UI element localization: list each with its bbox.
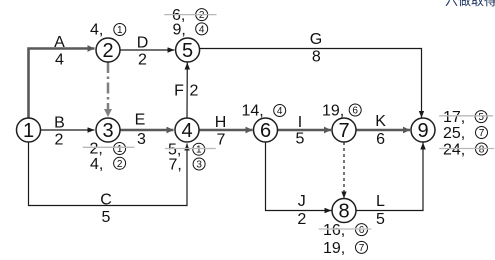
svg-text:6: 6 <box>260 120 271 142</box>
svg-text:L: L <box>376 193 385 210</box>
svg-text:B: B <box>54 115 65 132</box>
svg-text:3: 3 <box>102 120 113 142</box>
svg-text:7,: 7, <box>169 157 182 174</box>
svg-text:8: 8 <box>312 49 321 66</box>
svg-text:25,: 25, <box>443 125 465 142</box>
svg-text:K: K <box>375 113 386 130</box>
svg-text:7: 7 <box>338 120 349 142</box>
svg-text:7: 7 <box>479 128 485 139</box>
svg-text:24,: 24, <box>443 142 465 159</box>
svg-text:2: 2 <box>117 159 123 170</box>
svg-text:8: 8 <box>338 201 349 223</box>
svg-text:1: 1 <box>196 145 202 156</box>
svg-text:5: 5 <box>102 209 111 226</box>
svg-text:7: 7 <box>359 243 365 254</box>
svg-text:2: 2 <box>199 10 205 21</box>
svg-text:8: 8 <box>479 145 485 156</box>
svg-text:3: 3 <box>196 160 202 171</box>
svg-text:19,: 19, <box>323 240 345 257</box>
svg-text:5: 5 <box>478 112 484 123</box>
svg-text:F: F <box>174 83 184 100</box>
svg-text:2: 2 <box>55 132 64 149</box>
svg-text:1: 1 <box>117 25 123 36</box>
svg-text:4: 4 <box>199 24 205 35</box>
svg-text:6: 6 <box>359 225 365 236</box>
svg-text:6: 6 <box>376 131 385 148</box>
svg-text:H: H <box>215 114 227 131</box>
svg-text:17,: 17, <box>443 109 465 126</box>
svg-text:5: 5 <box>296 131 305 148</box>
svg-text:4: 4 <box>181 120 192 142</box>
svg-text:3: 3 <box>137 131 146 148</box>
svg-text:A: A <box>54 34 65 51</box>
svg-text:I: I <box>298 114 302 131</box>
svg-text:14,: 14, <box>242 102 264 119</box>
svg-text:9,: 9, <box>173 22 186 39</box>
svg-text:E: E <box>135 112 146 129</box>
svg-text:J: J <box>298 193 306 210</box>
svg-text:4: 4 <box>55 52 64 69</box>
svg-text:4,: 4, <box>90 156 103 173</box>
svg-text:2: 2 <box>102 40 113 62</box>
svg-text:4,: 4, <box>90 22 103 39</box>
svg-text:9: 9 <box>417 120 428 142</box>
svg-text:5: 5 <box>182 40 193 62</box>
svg-text:G: G <box>310 31 322 48</box>
svg-text:16,: 16, <box>323 222 345 239</box>
svg-text:1: 1 <box>117 144 123 155</box>
svg-text:6: 6 <box>352 106 358 117</box>
svg-text:C: C <box>100 192 112 209</box>
svg-text:1: 1 <box>23 120 34 142</box>
svg-text:5: 5 <box>376 211 385 228</box>
svg-text:7: 7 <box>217 132 226 149</box>
svg-text:六做取得分: 六做取得分 <box>445 0 495 8</box>
svg-text:19,: 19, <box>322 102 344 119</box>
svg-text:4: 4 <box>277 106 283 117</box>
svg-text:2: 2 <box>297 211 306 228</box>
svg-text:2: 2 <box>190 83 199 100</box>
svg-text:D: D <box>137 35 149 52</box>
svg-text:2: 2 <box>138 52 147 69</box>
